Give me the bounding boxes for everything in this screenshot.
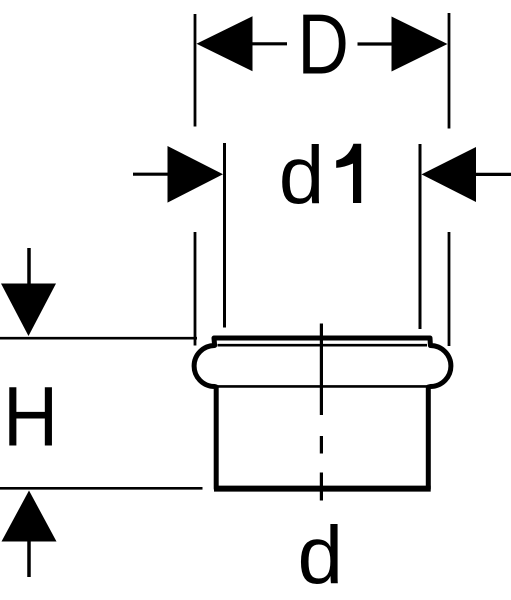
dimension H up arrow xyxy=(2,491,57,542)
svg-text:D: D xyxy=(297,0,349,92)
extension line D left xyxy=(194,14,197,346)
extension line d1 left xyxy=(223,143,226,328)
dimension D right tail line xyxy=(358,42,394,45)
dimension H down arrow xyxy=(1,284,56,337)
dimension D right arrow xyxy=(392,17,448,72)
dimension d1 left arrow xyxy=(168,146,224,203)
dimension H top stem xyxy=(27,248,31,285)
cap bead bottom line xyxy=(218,385,427,388)
H top reference line xyxy=(0,337,197,340)
svg-text:d: d xyxy=(279,130,325,221)
dimension D left arrow xyxy=(197,16,253,71)
dimension D left tail line xyxy=(250,42,287,45)
cap bottom edge emphasis xyxy=(214,486,431,492)
dimension H bottom stem xyxy=(27,541,31,577)
dimension d1 right line xyxy=(476,173,511,176)
cap rim line xyxy=(218,344,428,347)
label d1: digit 1 (no-foot style) xyxy=(336,144,361,203)
dimension d1 left line xyxy=(133,173,170,176)
dimension d1 right arrow xyxy=(422,147,477,202)
cap outline xyxy=(194,338,451,489)
H bottom reference line xyxy=(0,487,203,490)
extension line D right xyxy=(448,13,451,346)
extension line d1 right xyxy=(419,144,422,329)
svg-text:H: H xyxy=(3,370,58,464)
svg-text:d: d xyxy=(298,510,344,600)
centerline xyxy=(320,324,323,501)
